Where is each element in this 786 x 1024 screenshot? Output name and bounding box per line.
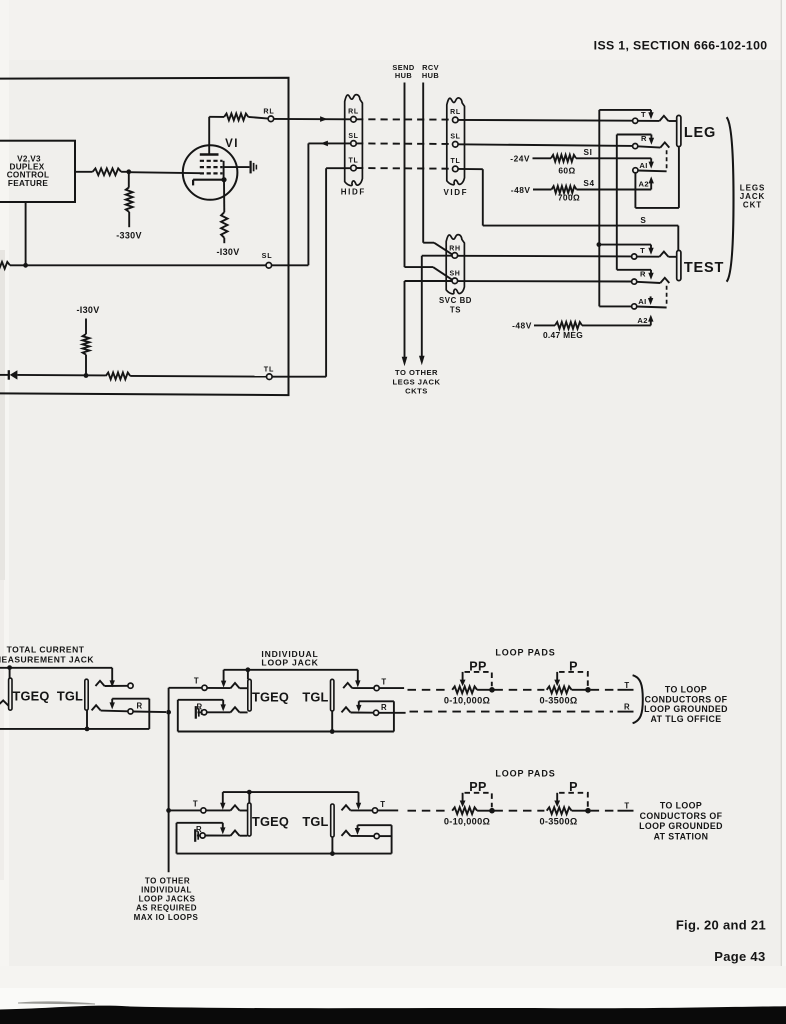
svg-text:TGEQ: TGEQ <box>252 814 289 829</box>
svg-text:CKT: CKT <box>743 200 762 209</box>
svg-text:Fig. 20 and 21: Fig. 20 and 21 <box>676 918 766 933</box>
svg-text:LEG: LEG <box>684 125 716 141</box>
svg-text:TGL: TGL <box>302 814 328 829</box>
svg-text:SVC BD: SVC BD <box>439 296 472 305</box>
svg-text:SL: SL <box>450 134 460 141</box>
svg-text:TO OTHER: TO OTHER <box>395 368 438 377</box>
svg-text:TOTAL CURRENT: TOTAL CURRENT <box>7 645 85 655</box>
svg-text:0-10,000Ω: 0-10,000Ω <box>444 696 490 706</box>
svg-text:T: T <box>640 246 645 255</box>
svg-text:0-3500Ω: 0-3500Ω <box>539 696 577 706</box>
svg-text:SH: SH <box>449 271 460 278</box>
svg-text:MAX IO LOOPS: MAX IO LOOPS <box>134 913 199 922</box>
svg-text:CONDUCTORS OF: CONDUCTORS OF <box>645 694 728 704</box>
svg-text:-24V: -24V <box>510 154 530 164</box>
svg-text:T: T <box>641 110 646 119</box>
svg-text:HIDF: HIDF <box>341 188 366 197</box>
svg-text:HUB: HUB <box>395 71 412 80</box>
svg-text:TGEQ: TGEQ <box>252 689 289 704</box>
svg-text:T: T <box>380 800 385 809</box>
svg-text:Page 43: Page 43 <box>714 949 765 964</box>
svg-text:-330V: -330V <box>116 231 142 241</box>
svg-text:R: R <box>640 270 646 279</box>
svg-text:SL: SL <box>348 133 358 140</box>
svg-text:RL: RL <box>263 106 274 115</box>
svg-text:T: T <box>381 677 386 686</box>
svg-text:SI: SI <box>584 148 593 157</box>
svg-text:LOOP GROUNDED: LOOP GROUNDED <box>644 704 728 714</box>
svg-text:60Ω: 60Ω <box>558 166 575 176</box>
svg-text:LOOP PADS: LOOP PADS <box>495 768 555 778</box>
svg-text:MEASUREMENT JACK: MEASUREMENT JACK <box>0 654 94 664</box>
svg-text:RL: RL <box>348 109 359 116</box>
svg-text:RH: RH <box>449 245 461 252</box>
svg-text:LOOP JACK: LOOP JACK <box>261 657 318 667</box>
svg-text:RL: RL <box>450 109 461 116</box>
svg-text:TL: TL <box>264 365 274 374</box>
svg-text:TO LOOP: TO LOOP <box>660 801 702 811</box>
svg-text:TO LOOP: TO LOOP <box>665 684 707 694</box>
svg-text:R: R <box>136 702 142 711</box>
svg-text:T: T <box>193 800 198 809</box>
svg-text:TGL: TGL <box>57 689 83 704</box>
svg-text:R: R <box>624 703 630 712</box>
svg-text:T: T <box>624 681 629 690</box>
svg-text:TL: TL <box>349 157 359 164</box>
svg-text:0-3500Ω: 0-3500Ω <box>539 817 577 827</box>
svg-text:LOOP JACKS: LOOP JACKS <box>139 895 196 904</box>
svg-text:R: R <box>381 703 387 712</box>
svg-text:-I30V: -I30V <box>76 305 99 315</box>
svg-text:AT TLG OFFICE: AT TLG OFFICE <box>650 714 721 724</box>
svg-text:T: T <box>194 677 199 686</box>
svg-text:HUB: HUB <box>422 71 439 80</box>
svg-text:LEGS JACK: LEGS JACK <box>393 377 441 386</box>
svg-text:AS REQUIRED: AS REQUIRED <box>136 904 197 913</box>
svg-text:CONDUCTORS OF: CONDUCTORS OF <box>640 811 723 821</box>
svg-text:A2: A2 <box>639 180 650 189</box>
svg-text:S: S <box>640 216 646 225</box>
svg-text:VI: VI <box>225 138 239 150</box>
svg-text:A2: A2 <box>637 316 648 325</box>
svg-text:TGL: TGL <box>302 689 328 704</box>
svg-text:R: R <box>641 134 647 143</box>
svg-text:TEST: TEST <box>684 260 724 276</box>
svg-text:LOOP GROUNDED: LOOP GROUNDED <box>639 821 723 831</box>
svg-text:LOOP PADS: LOOP PADS <box>495 648 555 658</box>
svg-text:FEATURE: FEATURE <box>8 179 48 188</box>
svg-text:AT STATION: AT STATION <box>654 832 709 842</box>
svg-text:CKTS: CKTS <box>405 387 428 396</box>
svg-text:INDIVIDUAL: INDIVIDUAL <box>141 886 192 895</box>
svg-text:SL: SL <box>262 251 273 260</box>
svg-text:TGEQ: TGEQ <box>12 689 49 704</box>
svg-text:-48V: -48V <box>512 321 532 331</box>
svg-text:S4: S4 <box>583 179 594 188</box>
svg-text:AI: AI <box>639 161 647 170</box>
svg-text:TL: TL <box>451 158 461 165</box>
svg-text:-48V: -48V <box>511 185 531 195</box>
svg-text:ISS 1, SECTION 666-102-100: ISS 1, SECTION 666-102-100 <box>594 38 768 52</box>
svg-text:700Ω: 700Ω <box>558 192 580 202</box>
svg-text:VIDF: VIDF <box>443 188 468 197</box>
svg-text:TO OTHER: TO OTHER <box>145 876 190 885</box>
svg-text:T: T <box>624 802 629 811</box>
svg-text:0.47 MEG: 0.47 MEG <box>543 330 583 340</box>
svg-text:-I30V: -I30V <box>216 247 239 257</box>
svg-text:0-10,000Ω: 0-10,000Ω <box>444 817 490 827</box>
svg-text:TS: TS <box>450 305 461 314</box>
svg-text:AI: AI <box>638 297 646 306</box>
